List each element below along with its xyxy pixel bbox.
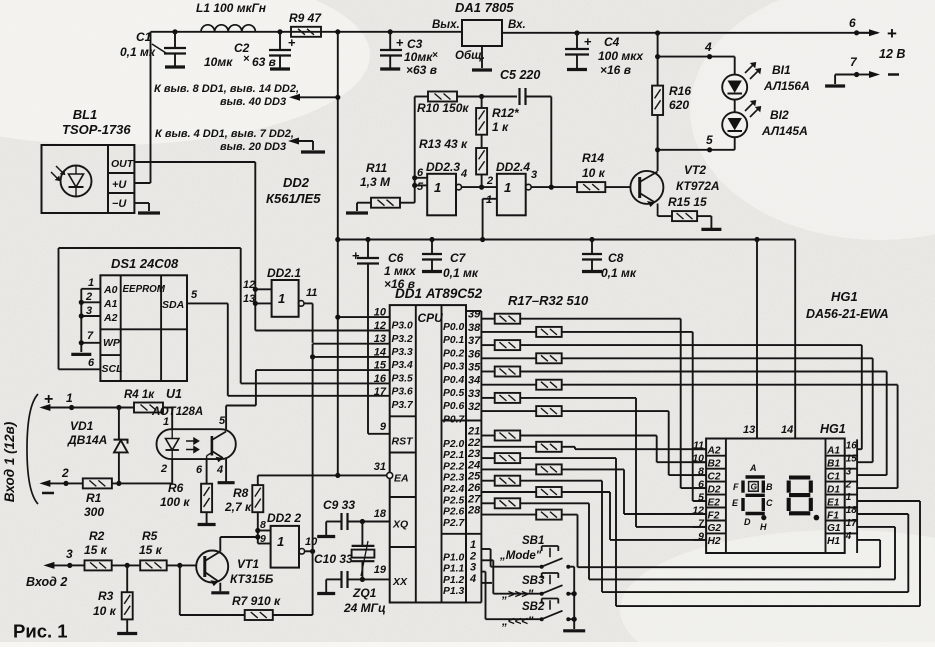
svg-text:Вх.: Вх.	[508, 19, 526, 31]
svg-text:620: 620	[669, 98, 689, 112]
capacitor C10	[326, 578, 341, 580]
svg-text:„Mode": „Mode"	[499, 550, 542, 562]
resistor R1	[83, 478, 112, 488]
svg-text:С9 33: С9 33	[323, 498, 355, 512]
svg-text:R2: R2	[89, 529, 105, 543]
svg-text:5: 5	[191, 289, 198, 301]
wire rail to HG1 pin 14	[794, 240, 796, 439]
terminal 1 plus	[47, 407, 71, 409]
node LED branch	[655, 30, 660, 35]
svg-text:0,1 мк: 0,1 мк	[443, 266, 479, 280]
wire P3.0 from +5V	[338, 316, 390, 318]
7seg C bar	[762, 498, 765, 511]
svg-text:R11: R11	[366, 161, 387, 175]
LED BI2	[722, 112, 747, 137]
svg-text:5: 5	[417, 181, 424, 193]
svg-text:+: +	[352, 248, 360, 263]
resistor R3	[126, 565, 128, 592]
svg-text:1: 1	[470, 539, 476, 551]
svg-text:Р1.3: Р1.3	[443, 586, 464, 597]
wire SB1 to common	[568, 566, 574, 568]
svg-text:27: 27	[467, 493, 481, 505]
wire VT1 collector to DD2.2 in	[220, 536, 257, 538]
svg-text:R17–R32 510: R17–R32 510	[508, 293, 589, 308]
wire R8 bottom to DD2.2 inputs	[257, 512, 259, 543]
svg-text:VT2: VT2	[684, 163, 706, 177]
svg-text:BL1: BL1	[73, 107, 98, 122]
svg-text:Н2: Н2	[708, 536, 721, 547]
wire stub left pin 7	[693, 526, 706, 528]
svg-text:15: 15	[846, 453, 857, 464]
wire P1.0 to SB1	[481, 548, 490, 550]
svg-text:ХQ: ХQ	[392, 519, 408, 531]
svg-text:1: 1	[504, 180, 511, 195]
wire U1 pin4 to ground	[225, 458, 227, 481]
svg-text:R4 1к: R4 1к	[124, 389, 155, 401]
svg-text:+U: +U	[112, 179, 127, 191]
svg-text:Р2.6: Р2.6	[443, 507, 464, 518]
node XQ-crystal	[360, 519, 365, 524]
svg-text:Р0.0: Р0.0	[443, 322, 464, 333]
wire VT2 emitter to R15	[658, 215, 672, 217]
resistor R13	[476, 148, 487, 175]
capacitor C1	[172, 29, 177, 34]
svg-text:1,3 М: 1,3 М	[360, 175, 391, 189]
svg-text:Р0.6: Р0.6	[443, 401, 464, 412]
resistor R16	[652, 86, 663, 115]
wire P1.1 to SB3	[481, 559, 493, 561]
pin cell divider	[706, 481, 726, 483]
capacitor C5	[518, 88, 520, 105]
capacitor C3 electrolytic	[388, 29, 393, 34]
svg-text:+: +	[584, 34, 592, 49]
resistor R4	[134, 403, 163, 413]
svg-text:2: 2	[85, 291, 92, 303]
wire stub left pin 10	[693, 461, 706, 463]
svg-text:13: 13	[243, 293, 255, 305]
svg-text:„<<<": „<<<"	[501, 616, 534, 628]
7seg F bar	[741, 481, 744, 493]
inductor L1	[201, 25, 255, 32]
svg-text:„>>>": „>>>"	[501, 589, 534, 601]
wire VT1 emitter ground	[211, 591, 229, 594]
svg-text:R7 910 к: R7 910 к	[232, 594, 281, 608]
svg-text:A2: A2	[103, 312, 118, 324]
wire SDA to P3.7	[187, 302, 228, 304]
wire net P2.6 to bus2/G1	[520, 502, 589, 504]
svg-text:DD2.3: DD2.3	[426, 160, 460, 174]
svg-text:R1: R1	[86, 491, 102, 505]
wire net P0.4->C1	[520, 371, 887, 373]
svg-text:R9 47: R9 47	[289, 11, 322, 25]
svg-text:6: 6	[88, 357, 95, 369]
wire net P0.5->D1	[562, 384, 898, 386]
pin cell divider	[706, 507, 726, 509]
7seg left digit A bar	[746, 475, 765, 478]
wire DD2.3 inputs	[415, 177, 428, 179]
wire SB2 to common	[568, 618, 574, 620]
svg-text:Р0.1: Р0.1	[443, 335, 464, 346]
svg-text:6: 6	[196, 464, 203, 476]
pin cell divider	[706, 494, 726, 496]
capacitor C2 electrolytic	[277, 29, 282, 34]
svg-text:3: 3	[846, 466, 852, 477]
svg-text:39: 39	[468, 309, 481, 321]
svg-text:R13 43 к: R13 43 к	[419, 137, 468, 151]
wire R15 to ground	[697, 215, 711, 217]
resistor R7	[245, 610, 273, 620]
wire SCL-P3.6 top link	[58, 248, 60, 369]
svg-text:С10 33: С10 33	[314, 552, 353, 566]
svg-text:10 к: 10 к	[582, 166, 606, 180]
svg-text:×16 в: ×16 в	[600, 63, 631, 77]
svg-text:ХХ: ХХ	[392, 576, 408, 588]
wire DD2.2 output chain	[305, 550, 313, 552]
wire R11 right	[400, 202, 415, 204]
wire P3.2 row	[255, 330, 389, 332]
svg-text:17: 17	[846, 518, 857, 529]
svg-text:В: В	[766, 482, 773, 492]
svg-text:1: 1	[66, 391, 73, 405]
svg-text:DD1 АТ89С52: DD1 АТ89С52	[395, 286, 483, 301]
wire stub left pin 5	[693, 500, 706, 502]
svg-text:1: 1	[88, 277, 94, 289]
pin cell divider	[706, 520, 726, 522]
wire C6 to RST	[367, 264, 369, 434]
wire SB3 to common	[568, 593, 574, 595]
capacitor C7	[429, 237, 434, 242]
svg-text:Р2.2: Р2.2	[443, 461, 464, 472]
svg-text:RST: RST	[392, 436, 415, 448]
svg-text:23: 23	[467, 448, 480, 460]
resistor R12	[481, 97, 483, 109]
resistor R19	[481, 344, 494, 346]
svg-text:34: 34	[468, 375, 480, 387]
op-gate DD2.2	[271, 526, 299, 568]
svg-text:Р3.4: Р3.4	[392, 360, 413, 371]
svg-text:22: 22	[467, 437, 480, 449]
svg-text:Р2.5: Р2.5	[443, 495, 464, 506]
svg-text:Рис. 1: Рис. 1	[13, 621, 68, 642]
svg-text:2: 2	[486, 175, 493, 187]
svg-text:R16: R16	[669, 84, 691, 98]
svg-text:×: ×	[432, 50, 438, 61]
svg-text:3: 3	[86, 305, 92, 317]
wire stub left pin 12	[693, 513, 706, 515]
node R10-R12-C5	[479, 94, 484, 99]
svg-text:R10 150к: R10 150к	[417, 101, 469, 115]
zener VD1 Д814А	[116, 405, 121, 410]
svg-text:A1: A1	[103, 298, 118, 310]
wire net P0.1->E2	[562, 331, 693, 333]
svg-text:Р3.6: Р3.6	[392, 387, 413, 398]
terminal 3 input 2	[51, 564, 69, 566]
svg-text:SCL: SCL	[102, 363, 123, 375]
svg-text:SВ1: SВ1	[522, 535, 544, 547]
wire P3.3 row	[313, 343, 390, 345]
7seg E bar	[741, 498, 744, 511]
svg-text:4: 4	[469, 573, 476, 585]
svg-text:4: 4	[216, 464, 223, 476]
wire DD2.2 inputs	[258, 530, 271, 532]
wire gnd arrow branch	[296, 140, 313, 142]
svg-text:10мк: 10мк	[204, 55, 233, 69]
svg-text:Е: Е	[732, 498, 739, 508]
resistor R10	[428, 92, 457, 102]
wire net P0.3->B1	[562, 357, 873, 359]
svg-text:−U: −U	[112, 198, 127, 210]
wire left drop from rail to BL1 +U	[150, 32, 152, 183]
wire R10 left elbow	[415, 96, 428, 98]
resistor R32	[481, 514, 536, 516]
svg-text:33: 33	[468, 388, 480, 400]
wire R12-R13	[481, 135, 483, 148]
wire net P2.7 to bus1/H1	[562, 514, 578, 516]
svg-text:Н1: Н1	[827, 536, 840, 547]
wire DD2.4 pin1 to +5V line	[483, 198, 497, 200]
svg-text:6: 6	[417, 167, 424, 179]
svg-text:10мк: 10мк	[404, 50, 433, 64]
svg-text:A0: A0	[103, 284, 118, 296]
svg-text:Н: Н	[760, 522, 767, 532]
svg-text:КТ972А: КТ972А	[676, 179, 720, 193]
svg-text:24: 24	[467, 459, 480, 471]
svg-text:Р3.5: Р3.5	[392, 373, 413, 384]
7seg D bar	[746, 512, 765, 515]
wire base node to R7	[179, 565, 181, 615]
svg-text:С3: С3	[407, 37, 423, 51]
op-gate DD2.1	[272, 280, 299, 317]
svg-text:1 мкх: 1 мкх	[384, 264, 417, 278]
IR receiver BL1 TSOP-1736	[42, 145, 109, 213]
wire +12V top rail from C1 node to DA1 input side	[151, 31, 463, 33]
wire Vcc arrow branch	[297, 96, 338, 98]
node Vcc branch	[335, 95, 340, 100]
wire stub left pin 11	[693, 448, 706, 450]
svg-text:26: 26	[467, 482, 481, 494]
wire +5V vertical drop to EA	[337, 32, 339, 476]
svg-text:DD2.1: DD2.1	[267, 266, 301, 280]
svg-text:CPU: CPU	[418, 311, 444, 325]
resistor R30	[481, 491, 536, 493]
resistor R28	[481, 468, 536, 470]
svg-text:19: 19	[374, 564, 387, 576]
wire DD2.1 inputs	[255, 288, 271, 290]
resistor R29	[481, 480, 494, 482]
svg-text:1: 1	[163, 416, 169, 428]
LED BI1	[722, 75, 747, 100]
svg-text:Р2.1: Р2.1	[443, 450, 464, 461]
svg-text:5: 5	[706, 133, 713, 147]
wire rail to HG1 pin 13	[754, 237, 759, 242]
wire BI2 cathode down to node 5	[734, 137, 736, 150]
svg-text:36: 36	[468, 348, 481, 360]
svg-text:АОТ128А: АОТ128А	[151, 406, 203, 418]
svg-text:BI2: BI2	[770, 108, 789, 122]
svg-text:32: 32	[468, 401, 480, 413]
svg-text:Р0.3: Р0.3	[443, 362, 464, 373]
svg-text:ZQ1: ZQ1	[352, 586, 377, 600]
wire DD2.4 output to R14	[531, 186, 577, 188]
terminal 6 +12V	[854, 30, 859, 35]
svg-text:SВ3: SВ3	[522, 575, 545, 587]
wire U1 pin2	[171, 459, 173, 483]
svg-text:R6: R6	[168, 481, 184, 495]
svg-text:ЕА: ЕА	[394, 473, 409, 485]
wire P3.5 link to U1 pin5	[226, 405, 256, 407]
button SB2 <<<	[540, 617, 544, 621]
svg-text:13: 13	[743, 424, 755, 436]
svg-text:2: 2	[845, 479, 852, 490]
svg-text:Р2.4: Р2.4	[443, 484, 464, 495]
svg-text:С6: С6	[388, 251, 404, 265]
svg-text:OUT: OUT	[111, 158, 135, 170]
svg-text:10: 10	[305, 536, 318, 548]
svg-text:Общ.: Общ.	[455, 50, 485, 62]
svg-text:Вход 2: Вход 2	[26, 575, 67, 589]
svg-text:1 к: 1 к	[492, 120, 509, 134]
svg-text:37: 37	[468, 335, 481, 347]
svg-text:9: 9	[380, 421, 387, 433]
wire R8 top to EA line	[257, 475, 259, 485]
7seg right digit 8	[789, 478, 811, 514]
resistor R6	[201, 484, 212, 513]
wire net P0.6->G2	[520, 397, 636, 399]
svg-text:11: 11	[306, 287, 317, 299]
wire stub left pin 6	[693, 487, 706, 489]
wire R11 left to ground	[357, 202, 371, 204]
svg-text:С8: С8	[608, 251, 624, 265]
svg-text:10 к: 10 к	[93, 604, 117, 618]
resistor R14	[577, 182, 605, 192]
button SB1 Mode	[540, 565, 544, 569]
wire net P0.2->A1	[520, 344, 862, 346]
svg-text:Р1.2: Р1.2	[443, 575, 464, 586]
resistor R18	[481, 331, 536, 333]
svg-text:ДВ14А: ДВ14А	[67, 433, 107, 447]
resistor R25	[481, 435, 494, 437]
crystal ZQ1	[361, 522, 363, 546]
svg-text:14: 14	[781, 424, 793, 436]
node XX-crystal	[360, 577, 365, 582]
svg-text:VT1: VT1	[237, 557, 259, 571]
svg-text:2: 2	[469, 550, 476, 562]
pin cell divider	[706, 532, 726, 534]
wire top rail right of DA1 to terminal 6	[502, 32, 878, 34]
svg-text:6: 6	[849, 16, 856, 30]
wire DA1 common pin	[481, 46, 483, 68]
capacitor C4 electrolytic	[574, 30, 579, 35]
resistor R26	[481, 446, 536, 448]
svg-text:21: 21	[467, 426, 480, 438]
svg-text:WP: WP	[103, 337, 121, 349]
svg-text:R14: R14	[582, 151, 604, 165]
op-gate DD2.4	[497, 174, 526, 216]
segment G label box	[749, 482, 759, 492]
svg-text:Р0.4: Р0.4	[443, 375, 464, 386]
7seg B bar	[762, 481, 765, 493]
right column dividers	[442, 420, 482, 422]
wire stub left pin 8	[693, 474, 706, 476]
ground buttons common	[573, 621, 575, 629]
svg-text:BI1: BI1	[772, 63, 791, 77]
svg-text:R15 15: R15 15	[668, 195, 707, 209]
left column dividers	[390, 415, 416, 417]
transistor VT2 КТ972А	[630, 171, 663, 204]
transistor VT1 КТ315Б	[196, 551, 228, 583]
resistor R2	[85, 560, 112, 570]
svg-text:Р2.0: Р2.0	[443, 439, 464, 450]
terminal 2 minus	[47, 482, 66, 484]
svg-text:3: 3	[531, 169, 537, 181]
7seg right DP	[814, 515, 820, 521]
node pin4 branch	[655, 54, 660, 59]
svg-text:D: D	[744, 517, 751, 527]
wire DD2.1 output to P3.3	[304, 302, 313, 304]
svg-text:К561ЛЕ5: К561ЛЕ5	[266, 191, 321, 206]
svg-text:К выв. 8 DD1, выв. 14 DD2,: К выв. 8 DD1, выв. 14 DD2,	[154, 83, 299, 95]
wire SCL lead	[59, 368, 101, 370]
svg-text:38: 38	[468, 322, 481, 334]
svg-text:×63 в: ×63 в	[406, 63, 437, 77]
svg-text:15 к: 15 к	[139, 543, 163, 557]
svg-text:5: 5	[219, 415, 226, 427]
wire P1.2 to SB2	[481, 571, 485, 573]
wire BL1 -U to ground	[134, 202, 149, 204]
svg-text:L1 100 мкГн: L1 100 мкГн	[196, 1, 267, 15]
wire net P2.3->F2	[562, 468, 624, 470]
wire R14 to VT2 base	[605, 186, 630, 188]
node +5V at R9 output	[335, 29, 340, 34]
svg-text:35: 35	[468, 362, 481, 374]
wire net P2.0->B2	[520, 435, 657, 437]
wire plus rail to R4	[72, 407, 134, 409]
svg-text:U1: U1	[166, 387, 182, 401]
voltage regulator DA1 7805	[462, 20, 502, 46]
svg-text:A: A	[749, 463, 757, 473]
resistor R11	[371, 198, 400, 208]
resistor R27	[481, 457, 494, 459]
svg-text:АЛ145А: АЛ145А	[761, 124, 808, 138]
svg-text:DA56-21-EWA: DA56-21-EWA	[806, 307, 889, 321]
svg-text:18: 18	[374, 508, 387, 520]
svg-text:К выв. 4 DD1, выв. 7 DD2,: К выв. 4 DD1, выв. 7 DD2,	[155, 128, 294, 140]
svg-text:12: 12	[243, 279, 255, 291]
wire R5 to VT1 base	[167, 564, 196, 566]
svg-text:F: F	[733, 482, 739, 492]
svg-text:Р0.2: Р0.2	[443, 348, 464, 359]
svg-text:С5 220: С5 220	[500, 68, 540, 82]
svg-text:17: 17	[374, 386, 387, 398]
svg-text:2: 2	[160, 463, 167, 475]
svg-text:EEPROM: EEPROM	[123, 284, 166, 295]
display HG1 box	[706, 439, 845, 554]
svg-text:2,7 к: 2,7 к	[224, 500, 252, 514]
svg-text:1: 1	[277, 534, 284, 549]
svg-text:С7: С7	[450, 251, 467, 265]
svg-text:Вход 1 (12в): Вход 1 (12в)	[2, 421, 17, 502]
svg-text:100 мкх: 100 мкх	[598, 49, 644, 63]
svg-text:300: 300	[84, 505, 104, 519]
svg-text:2: 2	[61, 466, 69, 480]
wire net P2.5->H2	[562, 491, 610, 493]
svg-text:1: 1	[486, 194, 492, 206]
svg-text:+: +	[396, 35, 404, 50]
svg-text:DD2: DD2	[283, 175, 310, 190]
svg-text:DA1 7805: DA1 7805	[455, 0, 514, 15]
svg-text:1: 1	[434, 180, 441, 195]
svg-text:Р2.7: Р2.7	[443, 518, 465, 529]
